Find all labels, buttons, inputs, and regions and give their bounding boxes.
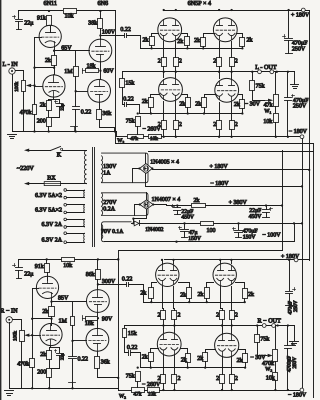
svg-text:100V: 100V <box>102 29 116 35</box>
svg-text:2k: 2k <box>197 355 203 362</box>
wire V2 grid lead <box>35 86 43 88</box>
wire 470u top cap lead <box>288 11 290 38</box>
svg-text:2: 2 <box>235 122 238 128</box>
capacitor 470uF 150V <box>233 228 243 233</box>
wire 15k top lead R <box>124 326 126 329</box>
svg-text:− 30V: − 30V <box>250 355 266 361</box>
wire 22uF-b lead <box>266 206 268 210</box>
wire jack sleeve down R <box>9 323 11 389</box>
svg-text:1M: 1M <box>59 319 68 325</box>
resistor 470k R <box>17 359 34 368</box>
wire cap to lower grid rail R <box>131 353 141 368</box>
wire fuse to primary <box>61 183 87 185</box>
svg-text:~220V: ~220V <box>17 165 35 172</box>
svg-text:10k: 10k <box>263 118 272 125</box>
svg-text:38k: 38k <box>88 19 97 26</box>
potentiometer 100k L <box>22 81 26 92</box>
wire V1R plate lead <box>47 273 49 281</box>
terminal heater winding 2 top <box>64 204 67 207</box>
svg-text:W₂: W₂ <box>265 366 272 372</box>
wire grid leads P3a <box>151 95 160 98</box>
wire bias row L c <box>162 136 301 138</box>
wire grid leads P2b <box>237 34 243 38</box>
wire cath drop P3b <box>175 102 177 121</box>
svg-text:75k: 75k <box>260 335 269 342</box>
junction plate rail L <box>163 9 290 11</box>
pentode P4R 6N5P <box>215 333 239 357</box>
resistor 2 cath P3Ra <box>158 375 166 384</box>
resistor 2 cath P1Ra <box>158 311 166 320</box>
wire pot bottom to ground R <box>21 342 23 389</box>
capacitor 4700uF upper R <box>286 288 296 294</box>
svg-text:2: 2 <box>235 58 238 64</box>
wire grid res drops U3 <box>203 47 205 49</box>
wire 300V node to coupling cap <box>98 284 127 286</box>
resistor 2k grid P3Ra <box>142 353 154 362</box>
svg-text:2: 2 <box>178 376 181 382</box>
terminal bar 22uF b <box>263 217 270 219</box>
svg-text:+ 180V: + 180V <box>291 13 310 19</box>
svg-text:100k: 100k <box>12 331 18 342</box>
svg-text:10k: 10k <box>65 12 74 19</box>
wire 2k psu to 380 rail <box>206 205 283 207</box>
wire 100V node to coupling cap <box>101 35 125 37</box>
wire grid leads P4Ra <box>206 350 216 353</box>
wire 22u cap top lead L <box>18 11 20 19</box>
junction grid rail L <box>150 47 243 49</box>
terminal bar 22uF a <box>175 214 181 216</box>
wire V2R cathode lead <box>50 346 52 348</box>
svg-text:470k: 470k <box>17 361 29 368</box>
winding heater winding 3 <box>83 219 85 227</box>
wire grid-loop branch to 2k bottom <box>35 67 55 69</box>
wire cath to -180 Ra <box>163 384 165 391</box>
resistor 18k R <box>85 317 98 327</box>
wire cath to out rail Ra <box>163 320 165 326</box>
wire V1 grid lead <box>35 37 42 39</box>
cap label 250V lower <box>293 103 307 109</box>
pentode P1R 6N5P <box>156 263 179 286</box>
svg-text:2: 2 <box>179 58 182 64</box>
terminal -180V mid <box>300 135 304 139</box>
resistor 10k right L <box>263 114 278 126</box>
wire 0.22 to ground rail L <box>75 110 77 132</box>
wire 470u150 lead <box>238 224 240 230</box>
junction 300V node <box>97 283 99 285</box>
wire grid leads P2Ra <box>207 283 214 288</box>
svg-text:250V: 250V <box>292 47 306 53</box>
wire heater winding 2 top lead <box>67 204 85 206</box>
wire grid rail lower R <box>141 367 246 369</box>
wire output rail R <box>125 325 295 327</box>
svg-text:2k: 2k <box>40 101 46 108</box>
terminal bar 22u L <box>17 29 22 31</box>
resistor 200 L <box>37 118 52 127</box>
wire pot bottom to ground <box>23 92 25 132</box>
svg-text:− 100V: − 100V <box>262 233 281 239</box>
wire grid res drop RL1 <box>150 362 152 368</box>
svg-text:6N11: 6N11 <box>44 0 58 7</box>
winding secondary 130V <box>102 156 103 183</box>
wire grid res drop RL3 <box>205 362 207 368</box>
input jack L outer <box>9 68 15 74</box>
triode V2 input 6N11 <box>43 75 65 98</box>
tube label 6N11 <box>44 0 58 7</box>
wire 60V to V4 plate <box>100 71 102 80</box>
junction 470u top <box>237 222 239 224</box>
terminal -180V bottom <box>300 388 304 392</box>
wire 15k to cap R <box>125 338 129 353</box>
wire B+ rail to drop <box>77 10 116 12</box>
potentiometer 100k R <box>20 331 25 342</box>
wire grid res drop L3 <box>204 108 206 114</box>
ground input R <box>5 391 14 396</box>
wire cath drop P2Rb <box>231 287 233 311</box>
wire cathode bottom node <box>49 111 60 118</box>
wire coupling cap to grid rail RU <box>129 285 144 303</box>
wire 200 to ground rail R <box>49 378 51 389</box>
resistor 36k L <box>97 110 112 120</box>
resistor 47k bias L <box>128 135 144 142</box>
junction 60V node <box>99 70 101 72</box>
capacitor 0.22 cathode R <box>69 357 89 363</box>
wire 36k return L <box>100 120 115 132</box>
pentode P1 6N5P <box>158 18 182 42</box>
wire out rail to ground <box>294 72 296 85</box>
wire cath drop P4Ra <box>222 357 224 375</box>
triode V4R driver 6N6 <box>86 328 109 351</box>
wire B+ front rail top-L <box>19 10 63 12</box>
resistor 91k R <box>35 263 50 273</box>
supply label -180V bottom <box>288 392 307 398</box>
supply label +180V psu <box>210 164 229 170</box>
page border left <box>0 0 1 400</box>
wire cathode node L <box>49 99 60 101</box>
svg-text:L - IN: L - IN <box>3 61 19 68</box>
capacitor 4700uF lower R <box>285 343 295 349</box>
resistor 2k grid P1a <box>143 37 155 46</box>
svg-text:22μ: 22μ <box>24 21 33 27</box>
wire plate drop P3Rb <box>174 326 176 333</box>
resistor 86k R <box>86 270 101 280</box>
resistor 75k right L <box>250 81 265 91</box>
svg-text:0.22: 0.22 <box>120 27 130 33</box>
resistor 10k bias R <box>148 388 160 398</box>
resistor 2k grid P1Ra <box>140 288 153 299</box>
wire 65V rail to V2 grid <box>55 50 90 52</box>
svg-text:0.22: 0.22 <box>78 357 89 363</box>
wire 22uF-a bottom <box>177 211 179 215</box>
junction B+ rail L <box>48 10 102 12</box>
wire 4700u top cap lead <box>289 260 291 291</box>
svg-text:− 30V: − 30V <box>245 102 261 108</box>
winding label 70V 0.1A <box>101 229 124 235</box>
wire 22u bypass bottom R <box>59 356 61 369</box>
wire 75k right top <box>252 72 254 81</box>
svg-text:2k: 2k <box>40 351 46 358</box>
wire grid res drops RU4 <box>244 299 246 303</box>
winding heater winding 2 <box>83 205 85 213</box>
svg-text:70V 0.1A: 70V 0.1A <box>101 229 124 235</box>
output label L-OUT <box>255 64 277 71</box>
voltage label 100V <box>102 29 116 35</box>
resistor 2k V1R cathode <box>42 307 54 317</box>
junction output rail L <box>163 71 289 73</box>
resistor 1M R <box>59 317 75 326</box>
ground stub mid L <box>71 127 78 132</box>
wire bridge1 top <box>145 154 147 164</box>
wire 2k leads <box>48 100 50 101</box>
wire plate drop P4b <box>231 72 233 79</box>
resistor 470k L <box>20 105 37 117</box>
svg-text:2: 2 <box>235 376 238 382</box>
wire mains to fuse <box>29 183 45 185</box>
wire 75k right top R <box>257 326 259 335</box>
wire 38k to V3 plate node <box>100 11 102 19</box>
svg-text:2k: 2k <box>237 357 243 364</box>
terminal +180V top <box>301 8 305 12</box>
wire 470u lower to -180 <box>287 101 289 137</box>
wire 1M top lead R <box>72 302 74 317</box>
pot label W2 bias L <box>117 138 124 144</box>
svg-text:2k: 2k <box>45 57 51 64</box>
wire 22uF-b bottom <box>266 213 268 218</box>
svg-text:2k: 2k <box>247 37 253 44</box>
wire bias row L a <box>117 136 128 138</box>
wire 47u bottom <box>184 232 186 238</box>
svg-text:300V: 300V <box>102 279 116 285</box>
junction 90V node <box>97 317 99 319</box>
wire 470u lower cap lead <box>287 72 289 98</box>
wire rail right edge vertical <box>313 144 315 398</box>
svg-text:− 180V: − 180V <box>289 129 308 135</box>
capacitor 0.22 coupling top L <box>120 27 130 37</box>
triode V1a 6N11 <box>39 25 61 47</box>
wire cath to -180 a <box>163 130 165 137</box>
terminal bar 47u <box>182 237 188 239</box>
svg-text:BX: BX <box>47 176 56 182</box>
svg-text:W₂: W₂ <box>119 394 126 400</box>
capacitor 22u bypass L <box>55 101 65 111</box>
wire cath drop P4Rb <box>231 357 233 375</box>
wire cath drop P1Rb <box>174 287 175 311</box>
resistor 200 R <box>37 369 51 378</box>
wire 75k to bias node <box>137 127 139 135</box>
voltage label -30V R <box>250 355 266 361</box>
wire bias row L b <box>144 136 149 138</box>
wire 15k to cap <box>123 88 125 105</box>
grid stub bar 18k L <box>83 69 86 74</box>
wire out rail to ground R <box>294 326 296 341</box>
svg-text:91k: 91k <box>37 15 46 22</box>
svg-text:130V: 130V <box>103 164 117 170</box>
wire cath drop P3Rb <box>174 356 176 375</box>
resistor 15k L <box>120 79 135 88</box>
winding label 270V <box>103 200 117 206</box>
mains label 220V <box>17 165 35 172</box>
pot label W2R <box>265 366 272 372</box>
box 130V winding <box>102 153 149 183</box>
wire cath drop P4b <box>231 103 233 121</box>
svg-text:2: 2 <box>216 312 219 318</box>
pentode P3 6N5P <box>159 78 183 102</box>
svg-text:36k: 36k <box>102 110 111 117</box>
wire cath to -180 c <box>219 130 221 137</box>
ground output L <box>291 85 299 89</box>
wire 10k to -180 rail <box>275 123 277 137</box>
junction 1M bottom node <box>75 90 77 92</box>
resistor 2 cath P3a <box>158 121 167 130</box>
svg-text:10k: 10k <box>148 392 156 398</box>
svg-text:− 180V: − 180V <box>210 181 229 187</box>
resistor 2 cath P4a <box>213 121 221 130</box>
terminal heater winding 1 top <box>64 189 67 192</box>
wire 75k to -30V wiper <box>253 91 265 101</box>
capacitor 0.22 coupling top R <box>122 276 132 286</box>
wire cath to out rail c <box>219 67 221 72</box>
wire bridge2 +380 out <box>154 205 192 206</box>
wire grid leads P1Rb <box>179 283 190 288</box>
svg-text:6N6: 6N6 <box>98 0 109 7</box>
resistor 2 cath P1b <box>174 58 182 67</box>
voltage label 90V <box>102 316 113 322</box>
cap label 470uF psu <box>243 229 258 235</box>
resistor 2 cath P4Ra <box>216 375 224 384</box>
diode label 1N4007 x4 <box>152 197 181 203</box>
svg-text:18k: 18k <box>87 62 96 69</box>
svg-text:47k: 47k <box>130 136 138 142</box>
wire grid leads P2a <box>204 34 215 38</box>
pot label W2 bias R <box>119 394 126 400</box>
wire V3R plate lead <box>97 280 99 290</box>
wire grid res drop RL2 <box>187 363 189 368</box>
wire W1 to 10k <box>275 107 277 114</box>
wire bridge1 -180 out <box>146 174 303 187</box>
cap label 250V upper R <box>293 300 299 312</box>
pot wiper arrow L <box>26 84 35 87</box>
wire 22u cap bottom lead R <box>18 271 20 279</box>
wire 470k to ground rail <box>34 115 36 132</box>
winding label 130V <box>103 164 117 170</box>
svg-text:18k: 18k <box>85 320 94 327</box>
svg-text:75k: 75k <box>126 372 135 379</box>
svg-text:470μF: 470μF <box>292 40 308 46</box>
winding label 1A <box>103 171 111 177</box>
wire grid leads P2Rb <box>236 283 245 289</box>
winding secondary 70V <box>102 224 103 239</box>
terminal L-OUT a <box>258 70 262 74</box>
wire 4700u cap bottom <box>289 294 291 306</box>
svg-text:2k: 2k <box>234 101 240 108</box>
wire plate leads P2R b <box>231 260 233 264</box>
resistor 36k R <box>95 357 110 369</box>
capacitor 22uF 450V a <box>172 205 181 211</box>
wire 91k to V1R plate <box>46 260 48 264</box>
wire V4 cathode to 36k <box>99 103 101 110</box>
wire 2k bottom to V2 plate <box>54 66 56 75</box>
svg-text:200: 200 <box>37 370 46 376</box>
wire 22u bypass bottom <box>59 107 61 118</box>
wire cath to -180 Rb <box>174 384 176 391</box>
wire grid res drop L1 <box>150 108 152 114</box>
ground output R <box>290 342 299 346</box>
svg-text:6.3V 5A×2: 6.3V 5A×2 <box>35 193 62 199</box>
junction feedback col R <box>117 258 119 379</box>
wire jack tip to pot top <box>16 71 24 81</box>
wire W2R pot top <box>275 326 277 350</box>
cap label 450V a <box>181 215 195 221</box>
resistor 2 cath P3Rb <box>172 375 181 384</box>
resistor 91k L <box>37 15 52 26</box>
svg-text:100: 100 <box>207 228 216 234</box>
wire cath drop P3a <box>163 102 165 121</box>
resistor 2k grid P1b <box>177 37 189 46</box>
junction plate rail R <box>161 259 290 261</box>
svg-text:250V: 250V <box>293 103 307 109</box>
wire grid leads P4a <box>205 95 216 98</box>
supply label -100V <box>262 233 281 239</box>
wire heater winding 1 bottom lead <box>67 197 85 199</box>
svg-text:0.22: 0.22 <box>81 110 92 116</box>
voltage label 60V <box>103 69 114 75</box>
wire 90V to V4R plate <box>97 319 99 329</box>
wire +180V plate rail R <box>165 259 310 261</box>
junction output rail R <box>162 324 289 326</box>
resistor 2k grid P2Ra <box>198 288 210 299</box>
cap label 47u <box>189 230 198 236</box>
voltage label -30V <box>245 102 261 108</box>
svg-text:10k: 10k <box>266 374 275 381</box>
wire feedback column R <box>118 260 120 391</box>
wire grid leads P3b <box>182 95 188 98</box>
resistor 2 cath P2Ra <box>216 311 224 320</box>
terminal R-OUT a <box>262 324 266 328</box>
resistor 2 cath P3b <box>174 121 182 130</box>
terminal bar 22u R <box>17 278 22 280</box>
pentode P2R 6N5P <box>213 263 236 286</box>
wire 75k to bias node R <box>137 382 139 388</box>
svg-text:1M: 1M <box>64 69 73 75</box>
cap label 450V b <box>249 214 263 220</box>
svg-text:W₁: W₁ <box>264 108 271 114</box>
junction 85V node <box>50 300 52 302</box>
wire V2R grid lead <box>33 335 41 337</box>
wire plate drop P3a <box>163 72 165 78</box>
junction grid rail RL <box>137 366 247 368</box>
wire cath to -180 Rd <box>231 384 233 391</box>
capacitor 22uF 450V b <box>263 208 273 213</box>
junction -180 rail R <box>162 389 289 391</box>
terminal bar 4700u upper <box>286 305 293 307</box>
wire cath to -180 d <box>231 130 233 137</box>
pentode P3R 6N5P <box>157 332 181 356</box>
wire plate drop P4Ra <box>222 326 224 334</box>
supply label -180V mid <box>289 129 308 135</box>
wire output rail L <box>123 71 295 73</box>
wire rail B+ top channel feed <box>116 143 314 145</box>
wire bias row R b <box>145 390 148 392</box>
resistor 1M L <box>64 67 78 77</box>
wire bias row R c <box>160 390 302 392</box>
cap label 4700uF upper <box>288 301 294 315</box>
svg-text:10k: 10k <box>150 136 158 142</box>
wire grid leads P4b <box>239 95 243 100</box>
svg-text:2k: 2k <box>143 37 149 44</box>
wire 2k leads R <box>49 348 51 351</box>
wire V3 plate lead <box>100 29 102 40</box>
resistor 2k grid P3a <box>142 98 154 108</box>
svg-text:K: K <box>57 152 62 159</box>
